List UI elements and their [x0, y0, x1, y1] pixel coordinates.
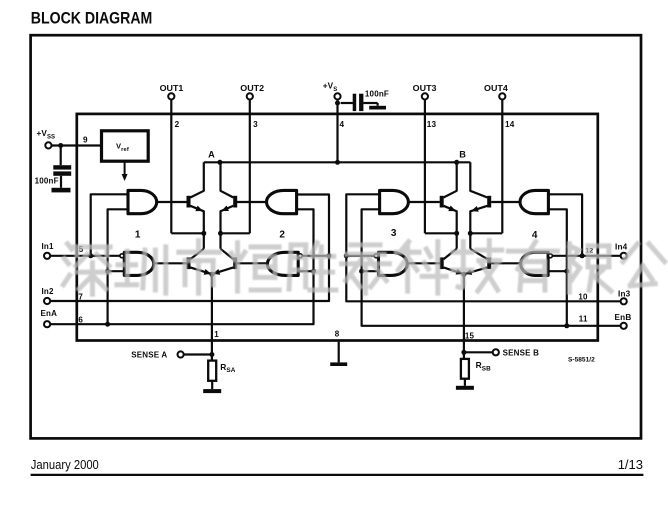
svg-text:A: A [208, 149, 215, 159]
junction In2 riser [327, 253, 332, 258]
svg-text:SENSE B: SENSE B [503, 348, 540, 357]
junction SENSE A [209, 352, 214, 357]
wire OUT2 pin [249, 99, 251, 233]
ground (C1) [60, 176, 62, 188]
wire In1 input net [50, 255, 120, 257]
wire EnB input net [362, 209, 621, 325]
terminal EnA [44, 321, 50, 327]
wire emitter lower [463, 267, 487, 274]
AND gate 3 upper [380, 190, 409, 213]
resistor RSB [461, 359, 469, 379]
capacitor C1 100nF [60, 146, 62, 166]
svg-text:OUT3: OUT3 [413, 83, 437, 93]
transistor base bar upper [187, 196, 191, 208]
wire In4 input net [553, 255, 621, 257]
transistor base bar lower [233, 257, 237, 269]
transistor base bar lower [187, 257, 191, 269]
svg-text:January 2000: January 2000 [31, 457, 99, 472]
wire gate1 lower output [154, 262, 187, 264]
wire gate2 lower output [237, 262, 267, 264]
wire emitter upper [470, 206, 487, 249]
svg-text:BLOCK DIAGRAM: BLOCK DIAGRAM [31, 10, 153, 28]
svg-text:B: B [459, 149, 466, 159]
svg-text:OUT1: OUT1 [160, 83, 184, 93]
AND gate 2 lower [267, 252, 298, 275]
wire emitter upper [190, 206, 204, 249]
terminal OUT1 [168, 93, 174, 99]
wire collector upper (R rail x=470.3) [470, 162, 487, 197]
svg-text:15: 15 [465, 332, 475, 341]
AND gate 4 lower [521, 252, 548, 275]
svg-text:2: 2 [279, 230, 285, 241]
junction +Vss cap tap [58, 143, 63, 148]
wire +Vs rail A-B [204, 161, 471, 163]
node A [217, 160, 222, 165]
wire gate3 upper output [408, 201, 439, 203]
terminal +Vss [45, 142, 51, 148]
junction bridge midpoint [201, 231, 206, 236]
wire EnA input net [50, 209, 313, 324]
junction EnB riser 4a [564, 269, 569, 274]
junction In3 riser [344, 253, 349, 258]
transistor base bar lower [487, 257, 491, 269]
svg-text:100nF: 100nF [365, 89, 389, 98]
junction bridge midpoint [454, 231, 459, 236]
inverter bubble gate3 lower [374, 254, 378, 258]
junction bridge midpoint [468, 231, 473, 236]
wire emitter lower [444, 267, 465, 274]
AND gate 4 upper [520, 190, 548, 213]
junction EnB riser 4b [564, 323, 569, 328]
svg-text:In1: In1 [42, 242, 55, 251]
wire OUT1 pin [170, 99, 172, 233]
svg-text:6: 6 [78, 315, 83, 324]
junction EnA riser 1b [105, 322, 110, 327]
wire collector lower [444, 249, 457, 259]
svg-text:3: 3 [253, 120, 258, 129]
terminal In1 [44, 253, 50, 259]
wire In2 input net [50, 195, 329, 302]
svg-text:In4: In4 [615, 242, 628, 251]
wire +Vss to Vref [50, 144, 101, 146]
svg-text:In2: In2 [42, 287, 55, 296]
svg-text:13: 13 [427, 120, 437, 129]
terminal In2 [44, 298, 50, 304]
terminal OUT4 [499, 93, 505, 99]
wire collector lower [470, 249, 487, 259]
wire collector upper (L rail x=203.8) [190, 162, 204, 197]
inverter bubble gate4 lower [548, 254, 552, 258]
svg-text:EnA: EnA [41, 309, 58, 318]
junction In4 riser [580, 253, 585, 258]
terminal In4 [621, 253, 627, 259]
svg-text:100nF: 100nF [35, 176, 59, 185]
wire emitter lower [190, 267, 212, 274]
svg-text:1: 1 [135, 230, 141, 241]
terminal +Vs [334, 93, 340, 99]
wire emitter lower [211, 267, 233, 274]
svg-text:3: 3 [391, 228, 397, 239]
wire emitter upper [221, 206, 234, 249]
junction bridge B bottom node [461, 272, 466, 277]
terminal In3 [621, 298, 627, 304]
svg-text:OUT4: OUT4 [484, 83, 508, 93]
inverter bubble gate2 lower [298, 254, 302, 258]
svg-text:14: 14 [505, 120, 515, 129]
wire collector lower [221, 249, 234, 259]
node B [454, 160, 459, 165]
wire collector upper (L rail x=456.7) [444, 162, 457, 197]
resistor RSA [208, 361, 216, 381]
wire midpoint stub to OUT [221, 232, 250, 234]
svg-text:11: 11 [579, 314, 588, 323]
AND gate 2 upper [267, 190, 297, 213]
wire emitter upper [444, 206, 457, 249]
svg-text:9: 9 [83, 136, 88, 145]
terminal OUT2 [247, 93, 253, 99]
capacitor C2 100nF [341, 102, 353, 104]
ground (C2) [377, 103, 379, 106]
svg-text:S-5851/2: S-5851/2 [568, 357, 595, 364]
transistor base bar lower [440, 257, 444, 269]
block Vref U1 [102, 131, 149, 161]
junction bridge midpoint [218, 231, 223, 236]
AND gate 1 upper [128, 190, 157, 213]
wire gate4 lower output [491, 262, 521, 264]
wire midpoint stub to OUT [425, 232, 457, 234]
svg-text:SENSE A: SENSE A [131, 351, 167, 360]
svg-text:2: 2 [175, 120, 180, 129]
wire gate3 lower output [407, 262, 440, 264]
svg-text:1/13: 1/13 [618, 457, 643, 472]
ground (RSB) [464, 379, 466, 386]
junction rail +Vs [335, 160, 340, 165]
wire gate1 upper output [157, 201, 187, 203]
AND gate 1 lower [124, 252, 153, 275]
junction +Vs cap tap [335, 101, 340, 106]
junction EnA riser 1a [105, 269, 110, 274]
inverter bubble gate1 lower [120, 254, 124, 258]
IC package outline [77, 114, 598, 341]
ground GND pin 8 [338, 342, 340, 363]
svg-text:1: 1 [214, 330, 219, 339]
watermark [63, 241, 668, 295]
wire OUT4 pin [501, 99, 503, 233]
svg-text:EnB: EnB [615, 313, 632, 322]
wire +Vs pin [336, 99, 338, 162]
wire In3 input net [346, 194, 620, 301]
wire bridge B sense line (pin 15) [463, 274, 465, 359]
svg-text:In3: In3 [618, 290, 631, 299]
wire OUT3 pin [424, 99, 426, 233]
junction EnB riser 3 [359, 269, 364, 274]
junction bridge A bottom node [209, 272, 214, 277]
AND gate 3 lower [379, 252, 408, 275]
svg-text:8: 8 [335, 330, 340, 339]
transistor base bar upper [440, 196, 444, 208]
terminal SENSE B [493, 349, 499, 355]
arrow Vref internal supply [124, 161, 126, 176]
terminal SENSE A [178, 351, 184, 357]
svg-text:7: 7 [78, 292, 83, 301]
svg-text:OUT2: OUT2 [240, 83, 264, 93]
wire gate2 upper output [237, 201, 267, 203]
junction SENSE B [461, 350, 466, 355]
ground (RSA) [211, 381, 213, 389]
wire SENSE A [184, 353, 212, 355]
wire SENSE B [464, 351, 493, 353]
wire bridge A sense line (pin 1) [211, 274, 213, 360]
transistor base bar upper [487, 196, 491, 208]
terminal EnB [621, 323, 627, 329]
svg-text:10: 10 [578, 292, 588, 301]
wire midpoint stub to OUT [470, 232, 502, 234]
transistor base bar upper [233, 196, 237, 208]
wire gate4 upper output [491, 201, 520, 203]
wire midpoint stub to OUT [171, 232, 204, 234]
wire collector lower [190, 249, 204, 259]
junction EnA riser 2 [311, 269, 316, 274]
junction In1 riser [88, 253, 93, 258]
wire collector upper (R rail x=220.5) [221, 162, 234, 197]
terminal OUT3 [422, 93, 428, 99]
svg-text:4: 4 [340, 120, 345, 129]
